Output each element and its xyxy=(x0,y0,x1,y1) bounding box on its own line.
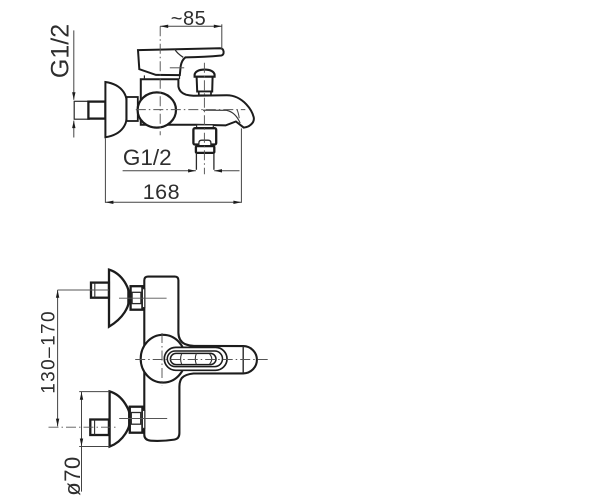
cartridge ring sides xyxy=(144,75,179,79)
lower nut axis line xyxy=(119,418,167,420)
shower outlet collar xyxy=(196,146,214,153)
spout mouth inner edge xyxy=(203,110,240,123)
lower collar xyxy=(142,410,144,428)
ball vertical centerline xyxy=(161,333,163,386)
upper nut axis line xyxy=(119,297,167,299)
diverter knob collar xyxy=(199,92,211,96)
dimension ø70 xyxy=(60,392,110,496)
slot divider 1 xyxy=(181,354,182,364)
lever inner stadium xyxy=(167,351,222,367)
dimension 168 xyxy=(105,128,241,204)
ball joint (side view) xyxy=(138,92,176,127)
slot divider 2 xyxy=(195,354,196,365)
centerline vertical cartridge axis xyxy=(159,26,161,135)
shower outlet knob piece xyxy=(199,140,211,146)
upper hex nut xyxy=(131,286,143,310)
upper thread stub xyxy=(91,283,109,298)
dimension 130-170 xyxy=(39,290,60,426)
svg-text:G1/2: G1/2 xyxy=(47,24,75,78)
centerline horizontal ball axis xyxy=(136,109,246,111)
svg-text:168: 168 xyxy=(143,180,180,204)
lower escutcheon bell (front view) xyxy=(110,391,130,446)
spout crease line xyxy=(237,109,239,118)
shower outlet step plate xyxy=(197,125,214,129)
handle boss ball (front view) xyxy=(141,335,186,383)
upper stub axis line xyxy=(58,289,109,291)
lever end cap seam xyxy=(242,346,244,373)
lever slot xyxy=(170,353,216,364)
centerline vertical diverter axis xyxy=(203,63,205,174)
upper escutcheon bell (front view) xyxy=(109,270,128,327)
wall union thread (thin rect) xyxy=(74,101,89,119)
slot end cap xyxy=(210,354,212,364)
lever collar stadium xyxy=(164,347,227,370)
lever crease xyxy=(175,49,184,57)
lever pivot tick xyxy=(170,67,184,69)
svg-text:G1/2: G1/2 xyxy=(123,145,172,170)
shower outlet pipe xyxy=(196,153,214,170)
dimension ~85 xyxy=(160,8,222,49)
escutcheon bell (side view) xyxy=(105,82,126,137)
upper collar xyxy=(142,289,144,308)
wall union body (thick rect) xyxy=(88,102,105,119)
diverter knob cap xyxy=(195,70,215,77)
faucet body (front view) xyxy=(144,277,257,441)
lower stub axis centerline xyxy=(49,426,117,428)
svg-text:130–170: 130–170 xyxy=(39,310,60,394)
lever handle (side view) xyxy=(138,48,224,75)
dimension G1/2 left (wall thread) xyxy=(47,24,76,138)
dimension G1/2 bottom (shower outlet) xyxy=(123,145,240,173)
lever horizontal centerline xyxy=(135,359,269,361)
diverter knob neck xyxy=(197,77,213,92)
collar cylinder between bell and ball xyxy=(127,97,138,121)
mixer body and spout (side view) xyxy=(141,79,254,127)
lower hex nut xyxy=(130,407,143,433)
lower thread stub xyxy=(90,420,109,436)
shower outlet block xyxy=(193,128,216,144)
